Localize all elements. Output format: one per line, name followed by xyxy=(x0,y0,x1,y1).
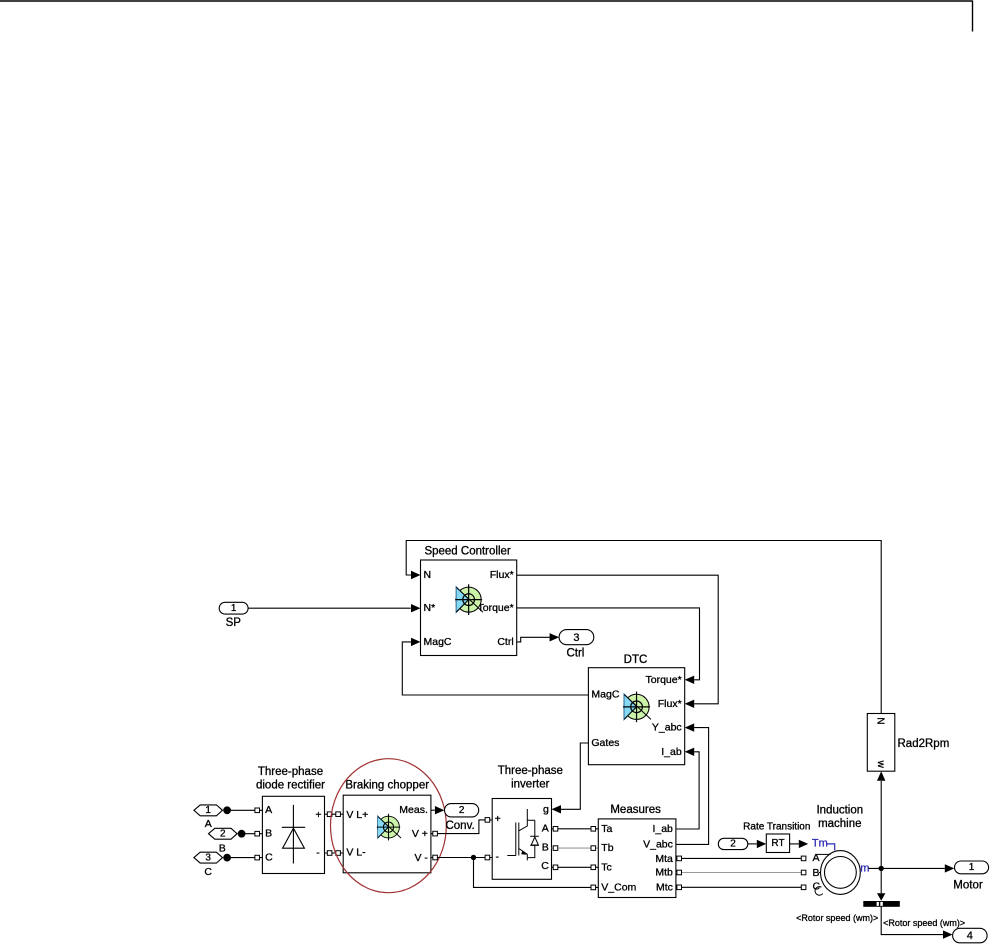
svg-text:Meas.: Meas. xyxy=(399,804,428,816)
wire Torque* (Speed Controller to DTC) xyxy=(517,608,700,680)
svg-text:Tm: Tm xyxy=(812,838,828,850)
block DTC xyxy=(588,668,684,765)
wire B to rectifier xyxy=(242,833,263,835)
wire RT to machine Tm xyxy=(790,843,799,845)
wire MagC (DTC to Speed Controller) xyxy=(402,642,588,695)
svg-text:DTC: DTC xyxy=(624,654,648,666)
wire V+ to inverter + xyxy=(431,820,492,834)
block Braking chopper xyxy=(343,795,431,873)
svg-text:Induction: Induction xyxy=(816,805,863,817)
block Measures xyxy=(598,819,676,898)
svg-text:Mtc: Mtc xyxy=(656,881,673,893)
wire m to Motor outport xyxy=(869,867,945,869)
wire inverter B to Measures Tb xyxy=(552,847,599,849)
wire inport 2 to RT xyxy=(748,843,757,845)
outport 3 Ctrl xyxy=(559,630,594,645)
svg-text:Torque*: Torque* xyxy=(645,674,681,686)
inport hexagon 1 (phase A) xyxy=(194,805,223,816)
svg-text:<Rotor speed (wm)>: <Rotor speed (wm)> xyxy=(796,913,878,923)
svg-text:V -: V - xyxy=(414,852,428,864)
svg-text:Tc: Tc xyxy=(601,862,612,874)
wire rectifier - to chopper VL- xyxy=(325,852,344,854)
svg-text:V L-: V L- xyxy=(346,847,366,859)
wire Meas. to outport 2 Conv. xyxy=(431,809,435,811)
svg-text:Ta: Ta xyxy=(601,823,612,835)
svg-text:+: + xyxy=(495,813,501,825)
svg-text:1: 1 xyxy=(231,603,237,614)
block Three-phase diode rectifier xyxy=(262,796,324,873)
wire Mtb to machine B xyxy=(676,872,806,874)
svg-text:B: B xyxy=(813,867,820,879)
svg-text:I_ab: I_ab xyxy=(652,823,673,835)
svg-text:3: 3 xyxy=(205,852,211,863)
svg-text:3: 3 xyxy=(573,632,579,644)
svg-text:A: A xyxy=(205,818,212,830)
svg-text:V +: V + xyxy=(412,828,428,840)
svg-text:MagC: MagC xyxy=(591,689,619,701)
svg-text:2: 2 xyxy=(730,839,736,850)
svg-text:Braking chopper: Braking chopper xyxy=(345,780,429,792)
wire Gates (DTC to inverter g) xyxy=(561,743,588,809)
wire bus selector to outport 4 xyxy=(881,907,943,935)
svg-text:I_ab: I_ab xyxy=(661,746,682,758)
svg-text:Measures: Measures xyxy=(610,804,661,816)
block Rad2Rpm xyxy=(867,714,895,772)
svg-text:Conv.: Conv. xyxy=(445,820,474,832)
node dot A xyxy=(223,806,231,814)
block Rate Transition RT xyxy=(766,834,789,853)
inport hexagon 3 (phase C) xyxy=(194,852,223,863)
inport 1 SP xyxy=(219,602,248,614)
svg-text:machine: machine xyxy=(818,818,861,830)
svg-text:m: m xyxy=(860,863,869,875)
wire m up to Rad2Rpm xyxy=(880,781,882,869)
svg-text:Rad2Rpm: Rad2Rpm xyxy=(898,738,950,750)
svg-text:w: w xyxy=(875,760,886,769)
outport 2 Conv. xyxy=(445,804,479,817)
wire inverter A to Measures Ta xyxy=(552,828,599,830)
wire Mta to machine A xyxy=(676,857,806,859)
page frame top border xyxy=(0,1,973,32)
svg-text:Mtb: Mtb xyxy=(655,867,673,879)
svg-text:Three-phase: Three-phase xyxy=(258,766,323,778)
node dot C xyxy=(223,854,231,862)
inport hexagon 2 (phase B) xyxy=(209,828,238,839)
svg-text:-: - xyxy=(316,847,320,859)
wire A to rectifier xyxy=(227,809,262,811)
wire SP to N* xyxy=(248,607,411,609)
wire rectifier + to chopper VL+ xyxy=(325,813,344,815)
svg-text:A: A xyxy=(542,823,549,835)
wire Flux* (Speed Controller to DTC) xyxy=(517,575,719,704)
DTC drive icon xyxy=(623,691,651,722)
wire Mtc to machine C xyxy=(676,886,806,888)
svg-text:1: 1 xyxy=(205,805,211,816)
svg-text:B: B xyxy=(265,828,272,840)
svg-text:Ctrl: Ctrl xyxy=(497,636,513,648)
wire V- to inverter - and V_Com xyxy=(431,858,598,888)
wire Y_abc (Measures V_abc to DTC) xyxy=(676,728,709,845)
svg-text:Ctrl: Ctrl xyxy=(566,647,584,659)
svg-text:C: C xyxy=(204,866,212,878)
node dot B xyxy=(238,830,246,838)
svg-text:V L+: V L+ xyxy=(346,809,368,821)
svg-text:Flux*: Flux* xyxy=(658,698,682,710)
wire m down to bus selector xyxy=(880,868,882,893)
svg-text:B: B xyxy=(542,842,549,854)
svg-text:SP: SP xyxy=(226,617,242,629)
svg-text:C: C xyxy=(265,852,273,864)
svg-text:<Rotor speed (wm)>: <Rotor speed (wm)> xyxy=(883,918,965,928)
IGBT diode icon inside inverter xyxy=(507,809,539,860)
wire C to rectifier xyxy=(227,857,262,859)
svg-text:RT: RT xyxy=(771,838,784,849)
svg-text:Speed Controller: Speed Controller xyxy=(424,546,510,558)
outport 4 xyxy=(953,928,988,943)
svg-text:Y_abc: Y_abc xyxy=(652,722,682,734)
svg-text:V_Com: V_Com xyxy=(601,881,636,893)
wire Ctrl (Speed Controller to outport 3) xyxy=(517,637,550,642)
svg-text:N: N xyxy=(424,569,432,581)
svg-text:Torque*: Torque* xyxy=(477,602,513,614)
svg-text:Flux*: Flux* xyxy=(490,569,514,581)
block Three-phase inverter xyxy=(492,799,551,880)
svg-text:MagC: MagC xyxy=(424,636,452,648)
induction machine body xyxy=(821,851,861,895)
junction m node xyxy=(879,866,884,871)
svg-text:Three-phase: Three-phase xyxy=(498,765,563,777)
red ellipse annotation around Braking chopper xyxy=(331,759,447,893)
svg-text:4: 4 xyxy=(967,930,973,942)
svg-text:N: N xyxy=(875,717,886,724)
svg-text:1: 1 xyxy=(969,862,975,873)
svg-text:B: B xyxy=(219,843,226,855)
svg-text:diode rectifier: diode rectifier xyxy=(256,780,325,792)
svg-text:inverter: inverter xyxy=(511,779,550,791)
inport 2 (torque reference) xyxy=(718,838,748,849)
junction V- node xyxy=(471,855,476,860)
svg-text:V_abc: V_abc xyxy=(643,838,673,850)
Speed Controller drive icon xyxy=(455,584,483,615)
svg-text:2: 2 xyxy=(459,805,465,816)
block Speed Controller xyxy=(421,560,517,656)
svg-text:Tb: Tb xyxy=(601,842,613,854)
wire I_ab (Measures to DTC) xyxy=(676,752,699,829)
svg-text:Gates: Gates xyxy=(591,737,619,749)
svg-text:2: 2 xyxy=(220,829,226,840)
svg-text:C: C xyxy=(541,860,549,872)
Braking chopper drive icon xyxy=(377,814,401,841)
diode symbol xyxy=(282,805,305,864)
svg-text:Rate Transition: Rate Transition xyxy=(743,822,810,833)
svg-text:N*: N* xyxy=(424,602,436,614)
svg-text:Motor: Motor xyxy=(953,879,983,891)
wire inverter C to Measures Tc xyxy=(552,866,599,868)
outport 1 Motor xyxy=(955,861,989,874)
bus selector bar xyxy=(863,901,900,907)
svg-text:-: - xyxy=(496,851,500,863)
svg-text:g: g xyxy=(543,803,549,815)
wire feedback N (Rad2Rpm to Speed Controller N) xyxy=(406,541,881,714)
svg-text:A: A xyxy=(265,804,272,816)
svg-text:Mta: Mta xyxy=(655,853,673,865)
svg-text:+: + xyxy=(315,809,321,821)
